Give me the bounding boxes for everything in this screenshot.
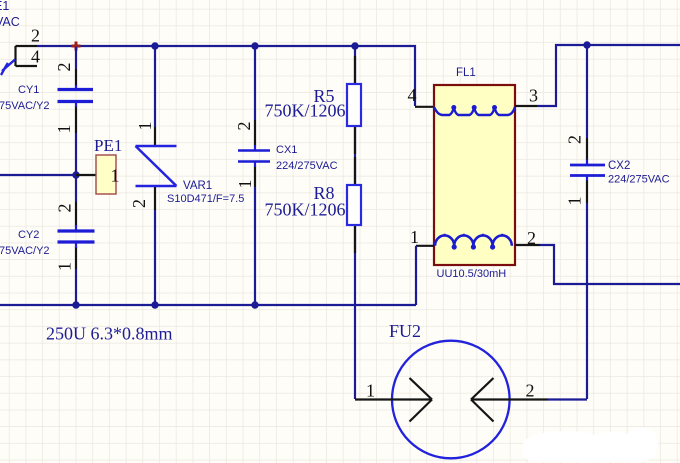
svg-text:250U 6.3*0.8mm: 250U 6.3*0.8mm (46, 324, 173, 344)
svg-text:750K/1206: 750K/1206 (265, 200, 346, 220)
watermark white blob (522, 428, 658, 463)
svg-text:VAC: VAC (0, 15, 20, 29)
svg-text:1: 1 (235, 180, 255, 189)
wire PE1 row (0, 174, 76, 176)
svg-text:FL1: FL1 (456, 67, 476, 79)
svg-text:1: 1 (366, 381, 375, 401)
wire pin3 to top right rail (537, 45, 680, 106)
svg-text:2: 2 (31, 26, 40, 46)
wire FL1 pin2 stub (515, 244, 540, 246)
junction dot bottom rail / CX1 (251, 301, 258, 308)
svg-text:2: 2 (526, 380, 535, 400)
svg-text:1: 1 (54, 125, 74, 134)
wire CX2 column (586, 45, 588, 399)
wire FL1 pin3 stub (515, 105, 537, 107)
svg-text:2: 2 (129, 199, 149, 208)
svg-text:1: 1 (111, 166, 120, 186)
svg-text:2: 2 (55, 204, 75, 213)
capacitor CX1 (238, 151, 270, 162)
svg-text:2: 2 (234, 122, 254, 131)
svg-text:UU10.5/30mH: UU10.5/30mH (437, 268, 507, 280)
resistor R8 pin stubs (354, 157, 356, 253)
junction dot top rail / R5 (351, 42, 358, 49)
junction dot top rail / CX2 (583, 41, 590, 48)
junction dot bottom rail / VAR1 (151, 301, 158, 308)
node red cross marker (72, 42, 81, 51)
svg-text:4: 4 (31, 46, 40, 66)
capacitor CY1 pin stubs (75, 69, 77, 133)
wire pin2 to right edge (540, 245, 680, 284)
svg-text:75VAC/Y2: 75VAC/Y2 (0, 100, 50, 112)
svg-text:VAR1: VAR1 (183, 180, 212, 192)
junction dot top rail / CX1 (251, 42, 258, 49)
wire CX1 column (254, 46, 256, 305)
svg-text:224/275VAC: 224/275VAC (608, 174, 670, 186)
junction dot bottom rail / CY (72, 301, 79, 308)
svg-text:1: 1 (565, 197, 585, 206)
wire pin1 down to bottom rail (415, 246, 417, 305)
svg-text:1: 1 (135, 122, 155, 131)
resistor R8 (347, 185, 361, 225)
svg-text:CX1: CX1 (276, 144, 297, 156)
wire FL1 pin4 stub (415, 106, 434, 108)
wire top rail (37, 46, 415, 106)
svg-text:2: 2 (527, 228, 536, 248)
relay E1 fragment (cut off at left edge) (1, 46, 37, 75)
capacitor CY2 (58, 231, 95, 242)
svg-text:2: 2 (565, 135, 585, 144)
capacitor CY2 pin stubs (75, 202, 77, 269)
junction dot PE1 row (72, 171, 79, 178)
transformer FL1 body (434, 85, 515, 265)
FL1 top winding (434, 105, 515, 115)
capacitor CX2 pin stubs (586, 138, 588, 203)
fuse FU2 left arrow (355, 378, 432, 422)
svg-text:CX2: CX2 (608, 160, 630, 172)
svg-text:750K/1206: 750K/1206 (265, 101, 346, 121)
capacitor CX1 pin stubs (254, 120, 256, 187)
resistor R5 pin stubs (354, 56, 356, 154)
capacitor CX2 (570, 165, 605, 176)
svg-text:1: 1 (410, 227, 419, 247)
svg-text:E1: E1 (0, 0, 9, 13)
wire FL1 pin1 stub (416, 245, 434, 247)
svg-text:S10D471/F=7.5: S10D471/F=7.5 (167, 193, 244, 205)
resistor R5 (347, 84, 361, 126)
svg-text:4: 4 (408, 85, 417, 105)
varistor VAR1 (136, 146, 177, 186)
svg-text:PE1: PE1 (94, 136, 122, 155)
wire FU2 pin2 to CX2 column (548, 398, 587, 400)
fuse FU2 body (392, 341, 510, 459)
svg-text:75VAC/Y2: 75VAC/Y2 (0, 245, 50, 257)
wire CY column (75, 47, 77, 305)
capacitor CY1 (58, 90, 94, 102)
svg-text:1: 1 (55, 262, 75, 271)
junction dot top rail / VAR1 (151, 42, 158, 49)
FL1 bottom winding (435, 234, 512, 250)
wire R5/R8 column (354, 46, 356, 399)
svg-text:224/275VAC: 224/275VAC (276, 160, 338, 172)
wire bottom rail (0, 304, 416, 306)
svg-text:FU2: FU2 (389, 321, 421, 341)
svg-text:3: 3 (529, 86, 538, 106)
svg-text:2: 2 (54, 63, 74, 72)
fuse FU2 right arrow (471, 378, 548, 422)
varistor VAR1 pin stubs (154, 127, 156, 210)
connector PE1 (96, 155, 116, 194)
wire VAR1 column (154, 46, 156, 305)
svg-text:CY1: CY1 (18, 84, 39, 96)
PE1 pin stub (76, 174, 96, 176)
svg-text:CY2: CY2 (18, 229, 39, 241)
